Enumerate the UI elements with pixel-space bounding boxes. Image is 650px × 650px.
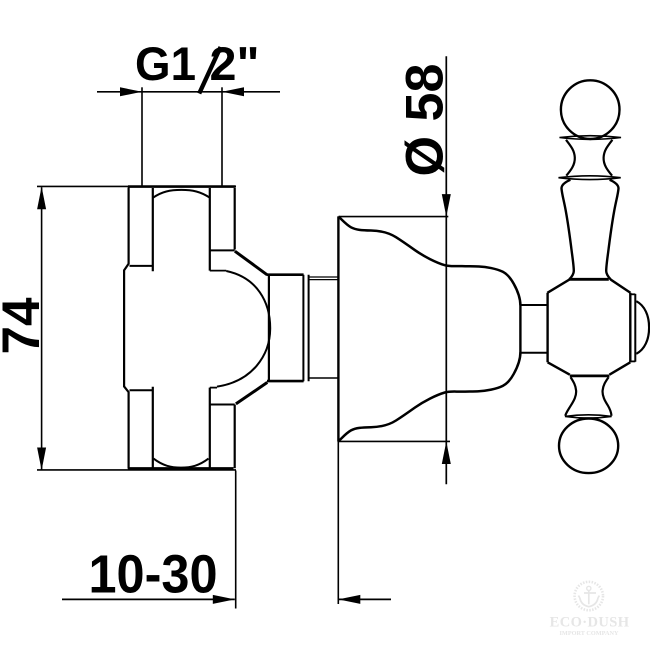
watermark anchor	[578, 591, 599, 607]
handle flange3 lens	[565, 415, 612, 418]
cartridge tick top	[210, 270, 227, 272]
handle bottom waist left	[565, 377, 576, 416]
arrow G1/2 right	[222, 87, 244, 96]
svg-text:IMPORT COMPANY: IMPORT COMPANY	[560, 630, 619, 637]
arrow 74 bottom	[37, 448, 46, 471]
handle flange1 lens	[560, 136, 622, 140]
dimension G1/2 extension left	[141, 87, 143, 186]
handle hub bottom edge	[570, 374, 610, 377]
dimension 10-30 line right	[338, 598, 391, 600]
dimension 10-30 line left	[62, 598, 235, 600]
stem section2 top line a	[309, 276, 339, 278]
cone top edge	[235, 251, 267, 275]
label G1/2 slash	[199, 47, 220, 94]
neck top	[520, 304, 547, 306]
valve body left inner wall top	[152, 188, 154, 271]
valve body bottom shelf right	[210, 404, 235, 406]
escutcheon bottom bell curve	[339, 352, 521, 441]
handle hub bottom chamfer left	[548, 362, 570, 374]
dimension D58 extension top	[339, 216, 449, 218]
valve body bottom shelf left	[130, 389, 153, 391]
watermark anchor ring	[587, 586, 591, 590]
handle cap top edge	[630, 293, 635, 295]
handle top ball	[561, 80, 620, 139]
valve body top face	[128, 185, 236, 188]
handle hourglass neck left	[566, 140, 575, 176]
stem section1 bottom	[267, 380, 304, 383]
handle hub right side	[629, 293, 631, 363]
cartridge dome arc	[217, 271, 270, 387]
arrow 10-30 left	[213, 595, 235, 604]
svg-text:G1: G1	[135, 37, 196, 90]
dimension 74 extension line top	[37, 185, 236, 187]
dimension 74 extension line bottom	[37, 469, 236, 471]
cartridge tick bottom	[210, 387, 217, 389]
handle bottom ball	[559, 419, 618, 474]
svg-text:ECO·DUSH: ECO·DUSH	[550, 615, 630, 631]
dimension 74 line	[41, 187, 43, 469]
handle vase left side	[547, 180, 573, 293]
valve body top dome arc	[153, 190, 210, 198]
handle hub bottom chamfer right	[609, 362, 630, 374]
cone bottom edge	[236, 382, 267, 404]
dimension 10-30 extension right	[337, 442, 339, 605]
watermark rope ring outer	[575, 582, 603, 610]
arrow G1/2 left	[120, 87, 142, 96]
valve body bottom face	[128, 467, 234, 470]
handle cap dome	[636, 301, 649, 354]
dimension D58 line	[445, 56, 447, 484]
svg-text:Ø 58: Ø 58	[395, 64, 454, 177]
arrow D58 bottom	[442, 442, 451, 465]
handle vase right side	[606, 180, 630, 293]
stem section1 top	[267, 273, 304, 276]
handle hub top edge	[569, 278, 609, 281]
handle hourglass neck right	[604, 140, 613, 176]
handle hub left side	[546, 293, 548, 363]
escutcheon top bell curve	[339, 217, 521, 306]
escutcheon front face	[519, 305, 521, 354]
valve body bottom dome arc	[154, 459, 209, 468]
stem ring right	[308, 275, 310, 382]
svg-text:74: 74	[0, 297, 51, 355]
handle cap face	[634, 294, 636, 362]
valve body left inner wall bottom	[152, 387, 154, 468]
stem section2 bottom	[309, 377, 339, 379]
valve body right inner wall bottom	[209, 388, 211, 468]
dimension D58 extension bottom	[339, 440, 451, 442]
dimension G1/2 extension right	[221, 87, 223, 186]
dimension 10-30 extension left	[235, 471, 237, 609]
handle bottom waist right	[603, 377, 612, 416]
arrow 10-30 right	[338, 595, 360, 604]
arrow D58 top	[442, 194, 451, 217]
valve body top shelf right	[210, 249, 235, 251]
escutcheon back face	[337, 216, 339, 441]
valve body right inner wall top	[209, 188, 211, 271]
svg-text:2": 2"	[210, 37, 260, 90]
stem base vertical	[268, 275, 270, 381]
handle cap bottom edge	[630, 360, 635, 362]
svg-text:10-30: 10-30	[89, 545, 218, 605]
dimension G1/2 line	[97, 91, 280, 93]
valve body front face bottom	[234, 405, 236, 469]
valve body left outline	[124, 188, 129, 469]
valve body top shelf left	[130, 265, 153, 267]
stem ring left	[302, 275, 304, 382]
neck bottom	[520, 352, 547, 354]
valve body front face top	[234, 188, 236, 250]
handle flange2 lens	[559, 176, 621, 180]
stem section2 top line b	[309, 279, 339, 281]
arrow 74 top	[37, 187, 46, 210]
